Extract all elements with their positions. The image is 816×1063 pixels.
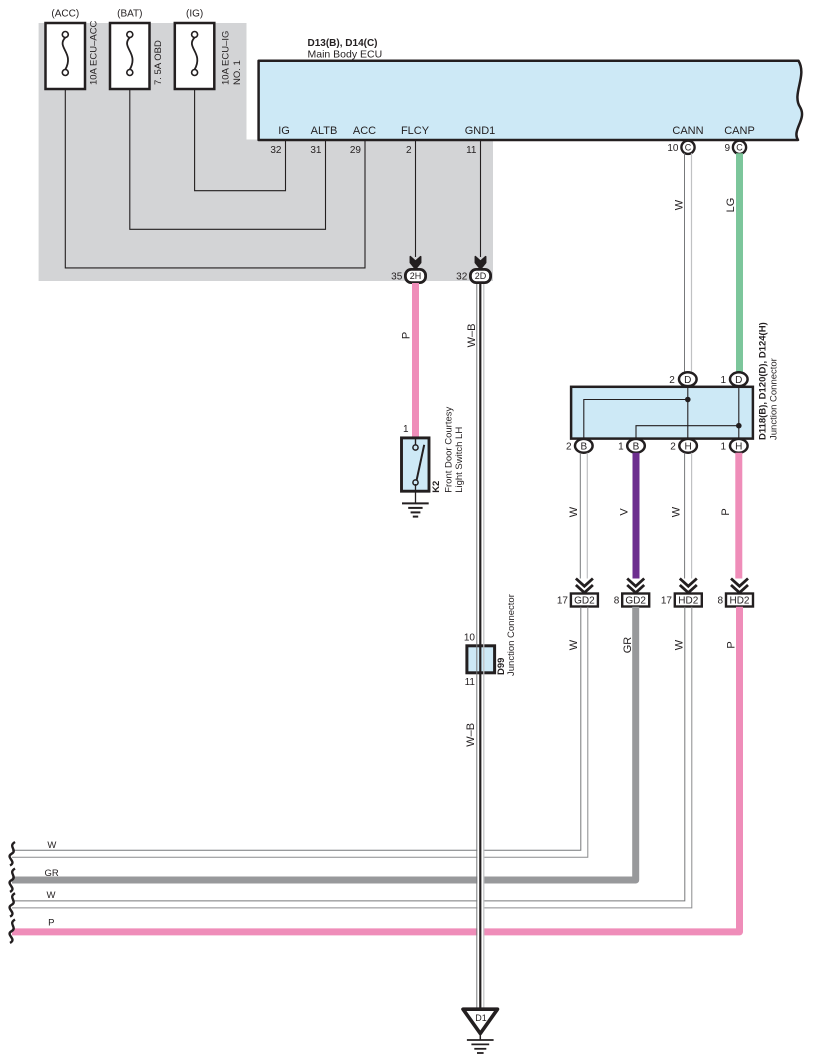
svg-text:(IG): (IG) xyxy=(186,9,203,20)
svg-text:(BAT): (BAT) xyxy=(117,9,142,20)
svg-text:32: 32 xyxy=(456,271,468,282)
svg-text:V: V xyxy=(619,508,631,516)
svg-text:GND1: GND1 xyxy=(465,125,496,137)
svg-text:D13(B), D14(C): D13(B), D14(C) xyxy=(308,38,378,49)
internal wire 2D-2H with tap to 2B xyxy=(584,387,691,439)
svg-text:8: 8 xyxy=(718,596,724,607)
shaded background panel xyxy=(39,23,493,281)
svg-text:K2: K2 xyxy=(431,481,442,493)
junction oval 2B bottom xyxy=(566,439,593,453)
svg-text:D1: D1 xyxy=(475,1013,487,1023)
junction oval 1D top xyxy=(720,372,747,386)
svg-text:ACC: ACC xyxy=(353,125,376,137)
svg-text:B: B xyxy=(633,441,640,452)
svg-text:1: 1 xyxy=(720,375,726,386)
svg-text:10: 10 xyxy=(464,632,476,643)
break squiggle GR xyxy=(10,869,15,892)
ground at K2 xyxy=(402,484,429,517)
svg-text:IG: IG xyxy=(278,125,290,137)
svg-text:H: H xyxy=(684,441,691,452)
svg-text:W: W xyxy=(47,840,56,851)
svg-text:HD2: HD2 xyxy=(678,596,698,607)
break squiggle W1 xyxy=(10,842,15,866)
junction connector D118/D120/D124 box xyxy=(571,322,779,440)
svg-text:P: P xyxy=(720,508,732,515)
svg-text:10A ECU–IG: 10A ECU–IG xyxy=(221,31,232,85)
wire W-B oval 2D to ground D1 xyxy=(465,284,484,1009)
wire GR GD2-8 down and left xyxy=(12,607,636,880)
svg-text:W–B: W–B xyxy=(465,723,477,747)
wire ALTB pin31 to fuse OBD xyxy=(130,76,326,230)
connector GD2 pin8 xyxy=(614,579,649,607)
svg-text:D: D xyxy=(684,375,691,386)
svg-text:B: B xyxy=(580,441,587,452)
svg-text:17: 17 xyxy=(557,596,569,607)
svg-text:D: D xyxy=(735,375,742,386)
svg-text:11: 11 xyxy=(465,677,476,688)
internal wire 1D-1H with tap to 1B xyxy=(636,387,742,439)
svg-text:Light Switch LH: Light Switch LH xyxy=(454,427,465,493)
junction oval 1H bottom xyxy=(720,439,747,453)
wire W 2B to GD2-17 xyxy=(568,453,588,579)
wire FLCY pin2 arrow xyxy=(410,140,420,269)
svg-text:2D: 2D xyxy=(475,271,487,281)
wire P HD2-8 down and left xyxy=(12,607,740,932)
svg-text:LG: LG xyxy=(725,198,737,213)
svg-text:GR: GR xyxy=(44,868,58,879)
break squiggle W2 xyxy=(10,893,15,916)
svg-text:P: P xyxy=(48,918,54,929)
wire LG CANP to junction 1D xyxy=(725,153,740,372)
wire IG pin32 to fuse ECU-IG xyxy=(195,76,286,191)
svg-text:Junction Connector: Junction Connector xyxy=(768,358,779,440)
svg-text:W: W xyxy=(47,890,56,901)
svg-text:2: 2 xyxy=(566,442,572,453)
connector HD2 pin17 xyxy=(661,579,702,607)
svg-text:GR: GR xyxy=(622,637,634,654)
svg-text:P: P xyxy=(726,641,738,648)
wire P 1H to HD2-8 xyxy=(720,453,739,579)
svg-text:2: 2 xyxy=(669,375,675,386)
wire W CANN to junction 2D xyxy=(673,153,691,372)
svg-text:CANP: CANP xyxy=(724,125,755,137)
connector HD2 pin8 xyxy=(718,579,753,607)
svg-text:W: W xyxy=(673,199,685,210)
svg-text:1: 1 xyxy=(403,424,409,435)
wire ACC pin29 to fuse ECU-ACC xyxy=(65,76,365,268)
svg-text:8: 8 xyxy=(614,596,620,607)
svg-text:Main Body ECU: Main Body ECU xyxy=(308,49,383,61)
junction oval 1B bottom xyxy=(618,439,645,453)
fuse ECU-ACC xyxy=(46,9,100,90)
svg-text:2H: 2H xyxy=(410,271,422,281)
svg-text:W: W xyxy=(670,506,682,517)
svg-text:C: C xyxy=(736,143,743,153)
junction oval 2H bottom xyxy=(670,439,697,453)
svg-text:FLCY: FLCY xyxy=(401,125,430,137)
connector oval 2D xyxy=(456,269,490,282)
svg-text:1: 1 xyxy=(618,442,624,453)
svg-text:H: H xyxy=(735,441,742,452)
svg-text:W: W xyxy=(674,639,686,650)
svg-text:1: 1 xyxy=(720,442,726,453)
wire W 2H to HD2-17 xyxy=(670,453,691,579)
svg-text:35: 35 xyxy=(391,271,403,282)
svg-text:17: 17 xyxy=(661,596,673,607)
svg-text:2: 2 xyxy=(406,145,412,156)
svg-text:10A ECU–ACC: 10A ECU–ACC xyxy=(89,20,100,85)
break squiggle P xyxy=(10,920,15,943)
svg-text:P: P xyxy=(400,332,412,339)
wire GND1 pin11 arrow xyxy=(475,140,485,269)
svg-text:7. 5A OBD: 7. 5A OBD xyxy=(153,40,164,85)
svg-text:NO. 1: NO. 1 xyxy=(232,60,243,85)
connector oval 2H xyxy=(391,269,425,282)
junction connector D99 xyxy=(464,594,517,688)
fuse ECU-IG NO.1 xyxy=(175,9,243,90)
fuse OBD xyxy=(110,9,164,90)
ground D1 xyxy=(463,1009,498,1053)
svg-text:10: 10 xyxy=(667,143,679,154)
svg-text:CANN: CANN xyxy=(672,125,703,137)
svg-text:ALTB: ALTB xyxy=(311,125,338,137)
connector GD2 pin17 xyxy=(557,579,598,607)
svg-text:2: 2 xyxy=(670,442,676,453)
svg-text:W: W xyxy=(568,506,580,517)
svg-text:W–B: W–B xyxy=(466,324,478,348)
svg-text:9: 9 xyxy=(724,143,730,154)
svg-text:GD2: GD2 xyxy=(574,596,595,607)
svg-text:29: 29 xyxy=(350,145,362,156)
wire W-B white body xyxy=(477,284,483,1009)
svg-text:C: C xyxy=(685,143,692,153)
wire V 1B to GD2-8 xyxy=(619,453,637,579)
pin numbers under ECU xyxy=(270,145,477,156)
svg-text:32: 32 xyxy=(270,145,282,156)
wire W HD2-17 down and left xyxy=(12,607,692,908)
svg-text:HD2: HD2 xyxy=(729,596,749,607)
pin circle C CANN xyxy=(667,140,694,154)
wire P oval 2H to switch K2 xyxy=(400,283,415,438)
svg-text:D118(B), D120(D), D124(H): D118(B), D120(D), D124(H) xyxy=(757,322,768,440)
ECU D13(B)/D14(C) Main Body ECU xyxy=(259,38,802,140)
svg-text:11: 11 xyxy=(466,145,477,156)
pin circle C CANP xyxy=(724,140,746,154)
switch K2 Front Door Courtesy Light Switch LH xyxy=(402,406,466,492)
wire W GD2-17 down and left xyxy=(12,607,588,858)
svg-text:31: 31 xyxy=(310,145,322,156)
svg-text:GD2: GD2 xyxy=(625,596,646,607)
junction oval 2D top xyxy=(669,372,696,386)
svg-text:Front Door Courtesy: Front Door Courtesy xyxy=(444,406,455,492)
svg-text:W: W xyxy=(568,639,580,650)
svg-text:(ACC): (ACC) xyxy=(51,9,79,20)
svg-text:Junction Connector: Junction Connector xyxy=(506,594,517,676)
